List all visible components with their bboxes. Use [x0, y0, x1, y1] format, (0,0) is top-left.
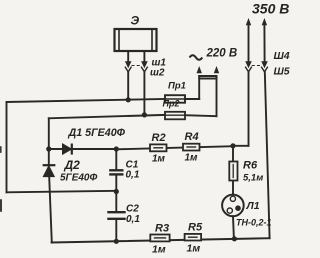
- svg-text:5ГЕ40Ф: 5ГЕ40Ф: [60, 173, 97, 184]
- svg-text:Пр1: Пр1: [168, 81, 186, 92]
- svg-text:С2: С2: [126, 204, 139, 215]
- svg-text:R4: R4: [185, 131, 199, 143]
- svg-text:0,1: 0,1: [126, 170, 140, 181]
- svg-text:1м: 1м: [185, 153, 199, 164]
- svg-text:350 В: 350 В: [252, 1, 289, 17]
- svg-text:220 В: 220 В: [206, 48, 238, 60]
- svg-text:R2: R2: [152, 132, 166, 144]
- svg-text:Д1 5ГЕ40Ф: Д1 5ГЕ40Ф: [68, 127, 126, 139]
- svg-text:Э: Э: [131, 14, 140, 28]
- svg-text:1м: 1м: [187, 243, 201, 255]
- svg-text:Д2: Д2: [64, 158, 81, 172]
- svg-text:R5: R5: [188, 222, 203, 234]
- svg-text:Пр2: Пр2: [163, 99, 180, 109]
- svg-text:5,1м: 5,1м: [243, 173, 263, 184]
- svg-text:R6: R6: [243, 160, 258, 172]
- svg-text:1м: 1м: [152, 154, 166, 165]
- svg-text:ТН-0,2-1: ТН-0,2-1: [236, 217, 272, 227]
- svg-text:1м: 1м: [152, 244, 166, 256]
- svg-text:ш2: ш2: [150, 68, 165, 79]
- svg-text:Ш4: Ш4: [274, 50, 290, 62]
- svg-text:R3: R3: [155, 223, 169, 235]
- svg-text:Л1: Л1: [246, 200, 260, 212]
- svg-text:0,1: 0,1: [126, 214, 140, 225]
- svg-text:Ш5: Ш5: [274, 66, 290, 78]
